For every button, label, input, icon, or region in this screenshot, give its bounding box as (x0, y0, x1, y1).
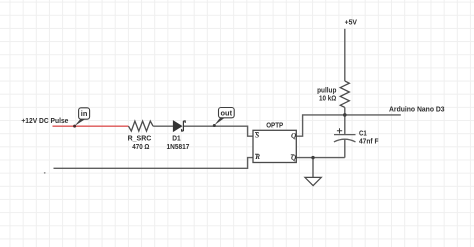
wire R_SRC to D1 (153, 125, 173, 127)
stray node dot (44, 172, 46, 174)
svg-text:in: in (81, 109, 88, 118)
wire net in (red, +12V DC Pulse source to R_SRC) (53, 125, 129, 127)
svg-text:+5V: +5V (345, 18, 357, 27)
svg-text:Arduino Nano D3: Arduino Nano D3 (389, 104, 445, 113)
svg-text:OPTP: OPTP (266, 120, 283, 129)
ground (305, 177, 321, 185)
pin Rbar (254, 153, 260, 161)
diode D1 (schottky) (173, 121, 185, 132)
junction dot Qbar/ground (311, 156, 314, 159)
junction dot pullup/C1/Arduino (343, 113, 347, 117)
node label out (flag) (213, 108, 234, 128)
wire C1 bottom lead (344, 139, 346, 157)
svg-text:out: out (221, 108, 233, 117)
svg-text:470 Ω: 470 Ω (132, 142, 149, 151)
wire +5V lead (344, 29, 346, 81)
pin Qbar (291, 154, 296, 162)
wire junction to C1 top (344, 115, 346, 135)
optocoupler U1 OPTP box (253, 130, 296, 162)
wire bottom return net to OPTP R pin (54, 158, 254, 169)
wire ground stub (312, 158, 314, 178)
node label in (flag) (73, 108, 90, 128)
resistor pullup 10k (vertical) (340, 81, 349, 107)
wire pullup to junction (344, 107, 346, 115)
capacitor C1 bottom plate (curved) (334, 139, 356, 142)
resistor R_SRC (129, 121, 154, 131)
pin Q (291, 132, 296, 140)
wire net out / Q to Arduino (296, 115, 401, 136)
svg-text:1N5817: 1N5817 (167, 142, 190, 151)
wire D1 to OPTP S pin (183, 126, 253, 136)
pin Sbar (255, 132, 259, 140)
svg-text:+12V DC Pulse: +12V DC Pulse (21, 116, 68, 125)
svg-text:10 kΩ: 10 kΩ (319, 93, 336, 102)
capacitor C1 top plate (334, 134, 356, 136)
wire Qbar net (296, 157, 345, 159)
svg-text:Q: Q (291, 132, 296, 140)
svg-text:47nf F: 47nf F (359, 137, 379, 146)
capacitor C1 plus sign (337, 128, 342, 133)
